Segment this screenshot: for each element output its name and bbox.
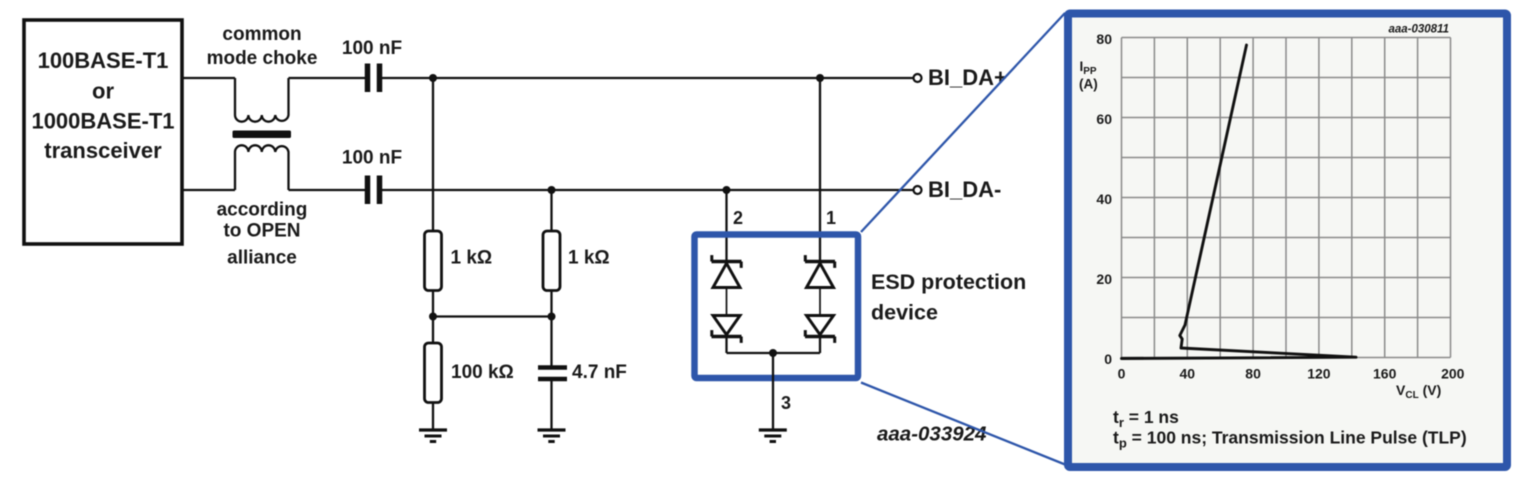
svg-text:100BASE-T1: 100BASE-T1	[38, 48, 169, 73]
node junction on BI_DA+ at R1	[429, 74, 437, 82]
svg-text:1 kΩ: 1 kΩ	[568, 248, 610, 269]
wire choke to C2	[289, 189, 366, 191]
transceiver box U1	[24, 20, 182, 244]
svg-text:aaa-030811: aaa-030811	[1388, 24, 1449, 36]
svg-text:1 kΩ: 1 kΩ	[451, 248, 493, 269]
svg-text:100 kΩ: 100 kΩ	[451, 362, 514, 383]
svg-text:80: 80	[1245, 366, 1261, 382]
node junction pin2 on BI_DA-	[723, 186, 731, 194]
svg-text:40: 40	[1180, 366, 1196, 382]
svg-text:1000BASE-T1: 1000BASE-T1	[31, 109, 174, 134]
svg-text:0: 0	[1104, 351, 1112, 367]
svg-text:4.7 nF: 4.7 nF	[572, 362, 627, 383]
label y-axis Ipp (A)	[1079, 59, 1098, 92]
svg-text:to OPEN: to OPEN	[223, 221, 300, 242]
zener diode D4 bottom	[805, 316, 835, 343]
svg-text:or: or	[92, 78, 114, 103]
svg-text:120: 120	[1307, 366, 1331, 382]
terminal BI_DA-	[914, 186, 922, 194]
svg-text:3: 3	[781, 393, 791, 413]
label ESD protection device	[871, 270, 1026, 325]
resistor R2 1 kOhm	[543, 231, 560, 291]
wire between D3 and D4	[819, 288, 821, 316]
graph grid	[1122, 38, 1451, 358]
wire BI_DA+ down to R1	[432, 78, 434, 231]
graph TLP curve	[1122, 45, 1357, 359]
capacitor C3 4.7 nF	[538, 368, 567, 380]
svg-text:20: 20	[1096, 271, 1112, 287]
wire R2 to C3	[550, 290, 552, 366]
label according to OPEN alliance	[217, 200, 308, 269]
x tick labels	[1118, 366, 1465, 382]
wire top from box to choke	[183, 77, 235, 79]
ground under R3	[419, 430, 447, 442]
svg-text:mode choke: mode choke	[207, 48, 318, 69]
wire R1 to center node	[432, 290, 434, 343]
terminal BI_DA+	[914, 74, 922, 82]
svg-text:60: 60	[1096, 111, 1112, 127]
svg-text:tp = 100 ns; Transmission Line: tp = 100 ns; Transmission Line Pulse (TL…	[1113, 428, 1467, 451]
svg-text:0: 0	[1118, 366, 1126, 382]
svg-text:160: 160	[1373, 366, 1397, 382]
callout line bottom	[861, 383, 1065, 465]
node junction pin3	[769, 349, 777, 357]
graph inset blue box	[1068, 14, 1507, 468]
node junction on BI_DA- at R2	[548, 186, 556, 194]
resistor R3 100 kOhm	[425, 343, 442, 403]
zener diode D2 bottom	[712, 316, 742, 343]
svg-text:100 nF: 100 nF	[342, 148, 402, 169]
wire pin1	[819, 78, 821, 262]
wire between D1 and D2	[726, 288, 728, 316]
svg-text:(A): (A)	[1079, 77, 1098, 92]
wire choke to C1	[289, 77, 366, 79]
label common mode choke	[207, 24, 318, 69]
common mode choke core bar	[233, 131, 292, 139]
wire R3 to ground	[432, 402, 434, 430]
svg-text:common: common	[222, 24, 301, 45]
svg-text:ESD protection: ESD protection	[871, 270, 1026, 294]
resistor R1 1 kOhm	[425, 231, 442, 291]
svg-text:200: 200	[1441, 366, 1465, 382]
zener diode D3 top (right stack)	[805, 255, 835, 287]
svg-text:1: 1	[826, 208, 836, 228]
capacitor C1 100 nF top	[368, 64, 380, 93]
callout line top	[861, 13, 1065, 232]
wire BI_DA- down to R2	[550, 190, 552, 231]
svg-text:alliance: alliance	[227, 248, 297, 269]
svg-text:100 nF: 100 nF	[342, 38, 402, 59]
svg-text:BI_DA-: BI_DA-	[928, 177, 1001, 202]
wire D4 to common rail	[819, 337, 821, 354]
zener diode D1 top (left stack)	[712, 255, 742, 287]
capacitor C2 100 nF bottom	[368, 176, 380, 205]
wire common rail	[727, 352, 821, 354]
wire D2 to common rail	[725, 337, 727, 354]
wire pin2	[725, 190, 727, 262]
svg-text:40: 40	[1096, 191, 1112, 207]
svg-text:BI_DA+: BI_DA+	[928, 65, 1007, 90]
y tick labels	[1096, 31, 1112, 367]
wire BI_DA- line	[382, 189, 914, 191]
wire BI_DA+ line	[382, 77, 914, 79]
ESD device blue outline box	[695, 235, 859, 379]
node junction pin1 on BI_DA+	[816, 74, 824, 82]
ground under C3	[538, 430, 566, 442]
wire center tie	[433, 315, 552, 317]
wire C3 to ground	[550, 381, 552, 430]
svg-text:80: 80	[1096, 31, 1112, 47]
svg-text:transceiver: transceiver	[44, 138, 162, 163]
node junction left center	[429, 313, 437, 321]
svg-text:device: device	[871, 301, 938, 325]
node junction right center	[548, 313, 556, 321]
svg-text:according: according	[217, 200, 308, 221]
svg-text:2: 2	[733, 208, 743, 228]
ground under pin3	[759, 430, 787, 442]
wire pin3 to ground	[772, 353, 774, 430]
common mode choke L1 bottom winding	[235, 145, 289, 190]
common mode choke L1 top winding	[235, 78, 289, 122]
wire bottom from box to choke	[183, 189, 235, 191]
